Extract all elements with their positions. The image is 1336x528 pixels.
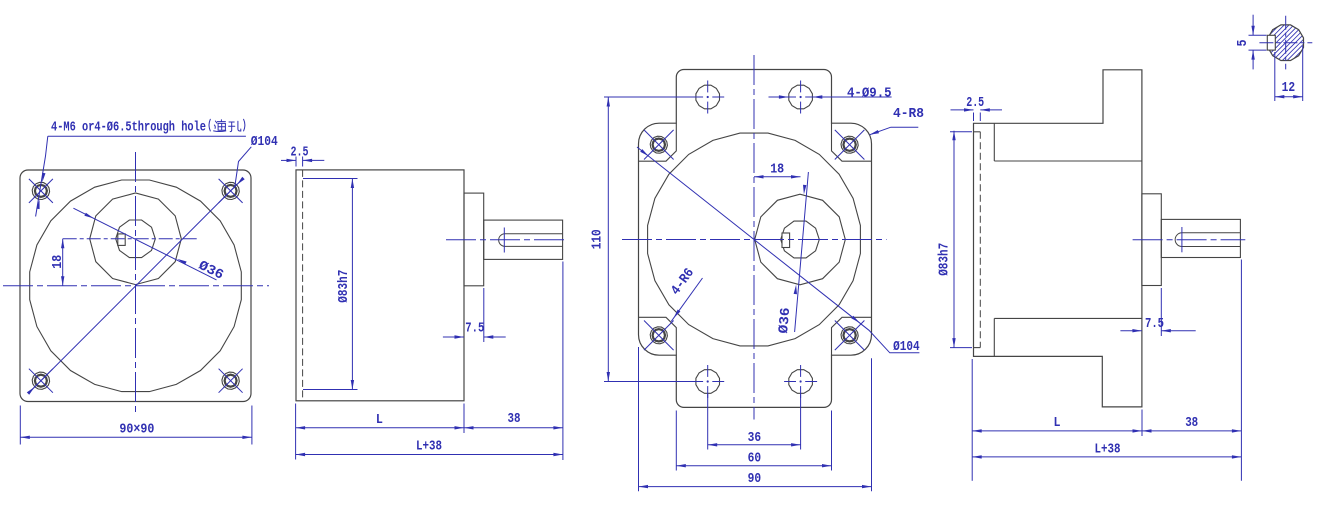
view 3 dimension 4-D9.5	[769, 86, 892, 101]
view 2 dimension L+38	[296, 440, 563, 457]
view 2 shaft axis centerline	[446, 239, 568, 241]
view 3 mounting hole bottom-right (4-D9.5)	[784, 365, 817, 398]
view 3 gearbox body circle D83	[648, 133, 861, 346]
svg-text:Ø104: Ø104	[893, 340, 920, 355]
view 1 label 4-M6 through hole leader	[36, 120, 246, 216]
view 3 corner pad edge top-left	[639, 123, 677, 161]
svg-text:Ø104: Ø104	[251, 135, 278, 150]
view 1 corner hole top-right	[219, 179, 243, 203]
view 1 shaft key slot	[118, 234, 125, 246]
view 3 dimension 60	[676, 411, 831, 471]
detail dimension 12	[1275, 46, 1303, 101]
view 2 dimension 2.5 spigot	[281, 145, 324, 166]
view 1 corner hole bottom-left	[29, 369, 53, 393]
svg-text:2.5: 2.5	[291, 145, 309, 160]
svg-text:L+38: L+38	[1095, 442, 1121, 457]
view 3 dimension D36 (tilted)	[777, 172, 808, 334]
view 2 dimension L	[296, 404, 464, 460]
detail horizontal centerline	[1259, 42, 1312, 44]
view 4 dimension L	[972, 359, 1142, 481]
svg-text:38: 38	[508, 412, 521, 427]
view 2 shaft keyway	[499, 234, 563, 247]
view 4 output shaft	[1161, 219, 1240, 257]
svg-text:2.5: 2.5	[966, 96, 984, 111]
view 4 step edge vertical front	[993, 123, 995, 356]
view 2 dimension D83h7	[303, 179, 358, 390]
svg-text:90: 90	[748, 472, 762, 487]
view 1 dimension D36	[73, 208, 225, 283]
svg-text:5: 5	[1236, 40, 1251, 47]
view 4 dimension 38	[1142, 260, 1241, 481]
view 3 corner pad edge top-right	[832, 123, 872, 161]
view 3 dimension 18	[754, 163, 801, 179]
svg-text:7.5: 7.5	[465, 322, 484, 337]
view 3 corner pad edge bottom-left	[639, 317, 677, 355]
view 3 vertical centerline	[753, 55, 755, 420]
view 1 dimension 90x90	[20, 406, 252, 445]
view 3 pad hole top-right	[835, 130, 865, 160]
view 3 pad hole bottom-right	[835, 321, 865, 351]
svg-text:110: 110	[591, 229, 606, 249]
view 1 corner hole top-left	[29, 179, 53, 203]
view 3 output boss circle D36	[755, 194, 846, 285]
view 3 shaft key slot	[782, 233, 790, 248]
svg-text:L+38: L+38	[416, 440, 442, 455]
view 2 dimension 7.5 boss length	[443, 288, 506, 342]
view 4 hidden spigot line (dashed)	[979, 132, 981, 348]
svg-text:L: L	[1054, 416, 1061, 431]
view 3 mounting hole bottom-left (4-D9.5)	[691, 365, 724, 398]
view 2 output shaft	[484, 220, 563, 259]
detail shaft section circle	[1222, 13, 1336, 73]
svg-text:36: 36	[748, 431, 762, 446]
view 1 horizontal centerline	[3, 285, 269, 287]
view 4 shaft axis centerline	[1133, 239, 1246, 241]
view 4 dimension 7.5	[1120, 288, 1195, 336]
view 4 dimension L+38	[972, 442, 1241, 458]
view 1 vertical centerline	[135, 152, 137, 414]
view 3 label 4-R8 with leader	[870, 107, 925, 135]
svg-text:Ø83h7: Ø83h7	[337, 270, 352, 303]
view 3 dimension D104 bolt circle	[637, 147, 920, 355]
view 1 output boss circle D36	[90, 193, 182, 285]
view 3 dimension 36	[708, 394, 801, 450]
view 3 label 4-R6 with leader	[669, 266, 703, 321]
svg-text:18: 18	[51, 255, 66, 269]
view 4 step edge horizontal	[994, 161, 1142, 318]
view 1 label CJK (tong kong)	[209, 119, 245, 131]
view 2 output boss	[464, 193, 484, 286]
detail dimension 5 (key width)	[1236, 15, 1267, 70]
view 1 gearbox body circle D83	[30, 180, 242, 392]
svg-text:12: 12	[1282, 81, 1296, 96]
svg-text:Ø83h7: Ø83h7	[937, 243, 952, 276]
svg-text:18: 18	[770, 163, 784, 178]
detail vertical centerline	[1285, 16, 1287, 70]
view 1 shaft circle D16	[116, 220, 156, 258]
view 2 dimension 38	[464, 262, 563, 461]
view 3 mounting hole top-left (4-D9.5)	[691, 81, 724, 114]
view 3 mounting hole top-right (4-D9.5)	[784, 81, 817, 114]
view 1 corner hole bottom-right	[219, 369, 243, 393]
view 4 body outline	[974, 70, 1142, 407]
svg-text:4-Ø9.5: 4-Ø9.5	[847, 86, 892, 101]
view 4 spigot edges	[974, 132, 981, 348]
svg-text:60: 60	[748, 452, 762, 467]
view 3 dimension 110	[591, 97, 695, 382]
svg-text:Ø36: Ø36	[777, 307, 794, 334]
view 2 keyway centerline	[503, 228, 505, 253]
view 3 pad hole bottom-left	[644, 321, 674, 351]
view 3 horizontal centerline	[622, 239, 887, 241]
view 3 pad hole top-left	[644, 130, 674, 160]
svg-text:38: 38	[1185, 416, 1198, 431]
view 2 hidden spigot edge (dashed)	[302, 170, 304, 401]
view 1 front flange: square body 90x90	[20, 170, 251, 402]
view 2 housing body rectangle	[296, 170, 464, 401]
svg-text:90×90: 90×90	[119, 423, 154, 438]
svg-text:L: L	[376, 413, 383, 428]
svg-text:7.5: 7.5	[1145, 317, 1164, 332]
view 4 shaft keyway	[1175, 233, 1240, 247]
detail key slot	[1267, 35, 1275, 50]
svg-text:4-R8: 4-R8	[893, 107, 924, 122]
svg-text:4-M6 or4-Ø6.5through hole: 4-M6 or4-Ø6.5through hole	[51, 120, 206, 135]
view 4 dimension 2.5	[951, 96, 1003, 121]
view 3 corner pad edge bottom-right	[832, 317, 872, 355]
view 3 dimension 90	[639, 347, 872, 491]
view 1 dimension D104 bolt circle	[27, 135, 278, 395]
view 1 dimension 18 (shaft offset)	[51, 239, 66, 286]
view 3 flange outline with tabs and corner pads	[639, 70, 872, 408]
view 3 shaft circle D16	[781, 221, 820, 258]
view 4 keyway centerline	[1181, 227, 1183, 252]
view 4 output boss	[1142, 194, 1161, 286]
view 4 dimension D83h7	[937, 131, 972, 348]
view 1 D36 horizontal centerline	[63, 238, 199, 240]
